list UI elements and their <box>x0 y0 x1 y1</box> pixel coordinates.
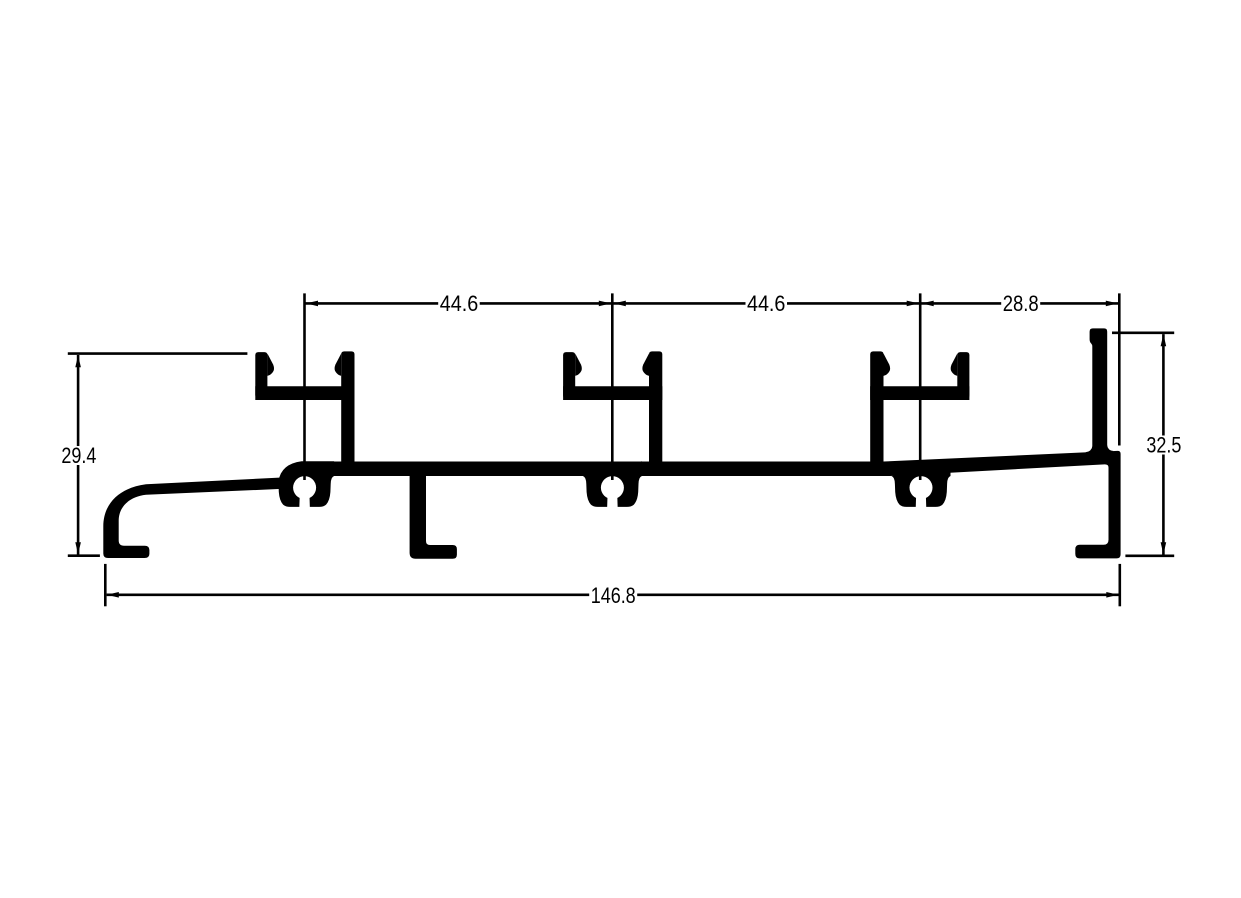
bottom dimension line 146.8 <box>107 593 1119 596</box>
arrowhead 44.6 right <box>599 301 611 307</box>
right dimension top extension tick <box>1112 331 1174 334</box>
top dimension extension line 1 <box>303 293 306 480</box>
right glazing-bead hook cluster (mirrored) <box>870 351 969 470</box>
middle glazing-bead hook cluster <box>563 351 662 470</box>
arrowhead 29.4 top <box>75 355 81 367</box>
svg-text:44.6: 44.6 <box>440 291 479 316</box>
right upper wall with top cap hook <box>1090 328 1108 456</box>
arrowhead second 44.6 left <box>614 301 626 307</box>
centre L-shaped drainage leg under web <box>410 474 457 559</box>
bottom dimension right extension line <box>1119 564 1122 606</box>
svg-text:28.8: 28.8 <box>1003 291 1039 316</box>
top dimension extension line 2 <box>611 293 614 480</box>
left screw-boss hole cut-out <box>293 476 316 499</box>
dimension label 28.8 (right span) <box>1001 291 1040 316</box>
top dimension extension line 3 <box>919 293 922 480</box>
dimension label 44.6 (left span) <box>438 291 480 316</box>
main bottom web with sloped right section, right lower wall and right foot <box>300 451 1121 559</box>
arrowhead 44.6 left <box>306 301 318 307</box>
svg-text:146.8: 146.8 <box>591 583 636 608</box>
svg-text:32.5: 32.5 <box>1146 433 1181 458</box>
right dimension line 32.5 <box>1162 334 1165 554</box>
dimension label 44.6 (middle span) <box>746 291 788 316</box>
left dimension top extension line <box>68 352 248 355</box>
right dimension bottom extension tick <box>1125 554 1174 557</box>
dimension label 29.4 (left height) <box>60 443 98 468</box>
dimension label 32.5 (right height) <box>1145 433 1183 458</box>
svg-text:29.4: 29.4 <box>61 443 96 468</box>
bottom dimension left extension line <box>104 564 107 606</box>
left ramp, wall and foot of profile <box>103 477 292 558</box>
svg-text:44.6: 44.6 <box>747 291 786 316</box>
arrowhead 32.5 bottom <box>1161 542 1167 554</box>
fillets at upper-right wall base <box>1086 446 1093 455</box>
right screw-boss hole cut-out <box>910 476 933 499</box>
left dimension line 29.4 <box>77 355 80 555</box>
arrowhead 32.5 top <box>1161 334 1167 346</box>
arrowhead 146.8 right <box>1106 592 1118 598</box>
top dimension line <box>305 302 1120 305</box>
arrowhead second 44.6 right <box>907 301 919 307</box>
left glazing-bead hook cluster <box>255 351 354 470</box>
left dimension bottom extension tick <box>68 554 100 557</box>
arrowhead 28.8 left <box>922 301 934 307</box>
middle screw-boss (C-shaped screw port under web) <box>583 461 642 507</box>
dimension label 146.8 (overall width) <box>589 583 637 608</box>
arrowhead 28.8 right <box>1106 301 1118 307</box>
left screw-boss (C-shaped screw port under web) <box>278 461 334 507</box>
arrowhead 29.4 bottom <box>75 542 81 554</box>
right screw-boss (C-shaped screw port under web) <box>892 461 951 507</box>
arrowhead 146.8 left <box>107 592 119 598</box>
top dimension extension line 4 (right) <box>1118 293 1121 445</box>
middle screw-boss hole cut-out <box>601 476 624 499</box>
